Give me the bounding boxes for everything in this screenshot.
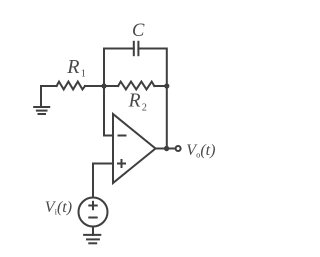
wire node A up to capacitor branch xyxy=(104,49,134,87)
wire node B down to output junction xyxy=(166,86,168,149)
wire node A down to op-amp inverting input xyxy=(104,86,113,136)
wire from R1 to node A xyxy=(85,85,104,87)
svg-text:C: C xyxy=(132,21,145,41)
wire source to ground xyxy=(92,227,94,235)
resistor R1 xyxy=(57,82,85,90)
resistor R2 with leads xyxy=(104,82,167,90)
wire from ground to R1 xyxy=(41,86,57,107)
output terminal (open circle) xyxy=(176,146,181,151)
node A (inverting input junction) xyxy=(101,83,106,88)
node B (right feedback junction) xyxy=(164,83,169,88)
svg-text:R2: R2 xyxy=(128,91,147,114)
wire capacitor to right branch xyxy=(138,49,166,87)
source minus sign xyxy=(89,217,96,219)
voltage source Vi circle xyxy=(79,198,108,227)
ground (bottom, under source) xyxy=(84,235,100,243)
capacitor C xyxy=(134,42,139,55)
wire op-amp output xyxy=(156,148,176,150)
wire op-amp noninverting input to source xyxy=(93,164,113,198)
op-amp minus sign xyxy=(119,135,126,137)
svg-text:R1: R1 xyxy=(66,56,86,80)
svg-text:Vo(t): Vo(t) xyxy=(186,142,215,159)
op-amp U1 triangle xyxy=(113,114,156,183)
source plus sign xyxy=(89,202,96,209)
ground (left, at R1 input) xyxy=(34,107,49,114)
op-amp plus sign xyxy=(118,160,125,167)
output junction dot xyxy=(164,146,169,151)
svg-text:Vi(t): Vi(t) xyxy=(45,199,72,216)
